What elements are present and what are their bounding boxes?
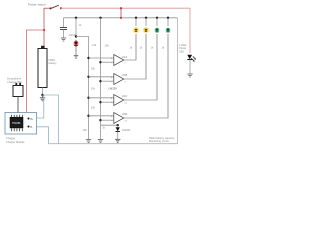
plug P1 bbox=[13, 86, 23, 97]
resistor R1 wire bbox=[75, 18, 77, 37]
svg-text:-: - bbox=[111, 60, 112, 64]
svg-text:U1:A: U1:A bbox=[122, 56, 128, 59]
wire LED3 column bbox=[156, 18, 158, 26]
diode D6 1N4001 bbox=[117, 125, 119, 127]
wire LED3 cathode bbox=[156, 34, 158, 100]
wire opamp B output bbox=[124, 34, 146, 79]
node ladder top bbox=[99, 17, 101, 19]
wire red top rail to right bbox=[61, 8, 190, 53]
wire LED1 cathode bbox=[135, 34, 137, 60]
IC U2 TP4056 body bbox=[10, 117, 23, 128]
node LED2 rail bbox=[145, 17, 147, 19]
op-amp U1:B bbox=[111, 74, 128, 85]
svg-text:Power switch: Power switch bbox=[28, 3, 46, 7]
wire opamp C - input bbox=[101, 101, 114, 103]
wire opamp C output bbox=[124, 34, 157, 100]
svg-text:U1:C: U1:C bbox=[122, 95, 128, 98]
LED D2 yellow bbox=[133, 27, 140, 34]
node LED4 rail bbox=[167, 17, 169, 19]
svg-text:-: - bbox=[111, 100, 112, 104]
svg-text:10k: 10k bbox=[105, 44, 110, 48]
svg-text:B+: B+ bbox=[30, 117, 34, 121]
wire LED cathode bbox=[75, 47, 77, 55]
svg-text:47k: 47k bbox=[92, 43, 97, 47]
ground power LED bbox=[187, 74, 192, 77]
wire red to charger bbox=[27, 30, 45, 113]
wire opamp D output bbox=[124, 34, 168, 118]
wire bottom rail bbox=[48, 143, 177, 145]
wire opamp A output bbox=[124, 34, 136, 60]
LED D3 yellow bbox=[143, 27, 150, 34]
pin B- bbox=[28, 126, 30, 128]
op-amp U1:A bbox=[111, 55, 128, 66]
wire LED1 column bbox=[135, 18, 137, 26]
resistor ladder wire bbox=[100, 18, 102, 139]
wire opamp A - input bbox=[101, 61, 114, 63]
LED D1 red indicator bbox=[73, 41, 79, 47]
svg-text:B-: B- bbox=[30, 125, 33, 129]
wire red battery positive riser bbox=[43, 8, 45, 47]
node red LED branch top bbox=[75, 17, 77, 19]
svg-text:battery: battery bbox=[49, 61, 58, 65]
wire reference to divider chain bbox=[76, 37, 89, 140]
wire opamp C + input bbox=[89, 97, 114, 99]
capacitor C1 bbox=[63, 18, 65, 28]
svg-text:U1:B: U1:B bbox=[122, 74, 128, 77]
node rail jumper top bbox=[120, 7, 122, 9]
node ladder D bbox=[99, 119, 101, 121]
wire LED2 cathode bbox=[145, 34, 147, 79]
pin B+ bbox=[28, 118, 30, 120]
switch S1 lever bbox=[51, 5, 59, 8]
op-amp U1:C bbox=[111, 95, 128, 106]
wire opamp B - input bbox=[101, 80, 114, 82]
node LED1 rail bbox=[135, 17, 137, 19]
node diode top bbox=[117, 124, 119, 126]
charger module box TP4056 bbox=[5, 113, 37, 135]
svg-text:10k: 10k bbox=[91, 67, 96, 71]
svg-text:Charger Module: Charger Module bbox=[6, 140, 25, 144]
ground divider chain bbox=[86, 140, 91, 143]
wire LED4 cathode bbox=[167, 34, 169, 118]
node ref B bbox=[87, 76, 89, 78]
wire opamp D - input bbox=[101, 119, 114, 121]
ground ladder bbox=[98, 140, 103, 143]
wire opamp A + input bbox=[89, 57, 114, 59]
svg-text:1N4001: 1N4001 bbox=[122, 128, 132, 132]
svg-text:Monitoring circuit: Monitoring circuit bbox=[149, 139, 169, 143]
node switch right contact bbox=[60, 7, 62, 9]
wire blue B+ bbox=[29, 95, 44, 118]
wire LED2 column bbox=[145, 18, 147, 26]
node LED3 rail bbox=[156, 17, 158, 19]
svg-text:LM339: LM339 bbox=[109, 86, 118, 90]
node rail jumper bottom bbox=[120, 17, 122, 19]
svg-text:TP4056: TP4056 bbox=[12, 122, 21, 125]
svg-text:-: - bbox=[111, 79, 112, 83]
wire red top from battery to switch bbox=[44, 7, 51, 9]
op-amp U1:D bbox=[111, 113, 128, 124]
wire battery negative bbox=[42, 88, 44, 96]
svg-text:10k: 10k bbox=[91, 87, 96, 91]
ground D1 bbox=[74, 56, 79, 59]
svg-text:U1:D: U1:D bbox=[122, 113, 128, 116]
wire blue B- bbox=[29, 127, 49, 144]
wire right rail down bbox=[177, 18, 179, 144]
svg-text:10k: 10k bbox=[91, 106, 96, 110]
node ref C bbox=[87, 97, 89, 99]
wire ladder tap to diode bbox=[101, 124, 118, 126]
ground diode bbox=[115, 139, 120, 142]
node ladder B bbox=[99, 80, 101, 82]
node ladder A bbox=[99, 61, 101, 63]
wire red rail jumper bbox=[120, 8, 122, 18]
node ref A bbox=[87, 57, 89, 59]
LED D7 power white bbox=[187, 55, 196, 62]
ground C1 bbox=[61, 38, 66, 41]
wire plug to charger box bbox=[17, 97, 19, 113]
svg-text:LED: LED bbox=[179, 49, 184, 53]
ground battery bbox=[40, 95, 45, 101]
wire power LED cathode bbox=[189, 60, 191, 74]
svg-text:10k: 10k bbox=[83, 128, 88, 132]
wire LED4 column bbox=[167, 18, 169, 26]
LED D5 green bbox=[165, 27, 171, 33]
wire opamp D + input bbox=[89, 115, 114, 117]
node charger tap bbox=[43, 29, 45, 31]
wire opamp B + input bbox=[89, 76, 114, 78]
node ladder C bbox=[99, 101, 101, 103]
battery BT1 bbox=[38, 49, 47, 88]
node reference bbox=[75, 35, 77, 37]
svg-text:-: - bbox=[111, 118, 112, 122]
wire +V rail bbox=[64, 17, 178, 19]
node ref D bbox=[87, 115, 89, 117]
node battery negative bbox=[41, 94, 43, 96]
wire blue battery to charger loop bbox=[43, 95, 59, 144]
LED D4 green bbox=[154, 27, 160, 33]
